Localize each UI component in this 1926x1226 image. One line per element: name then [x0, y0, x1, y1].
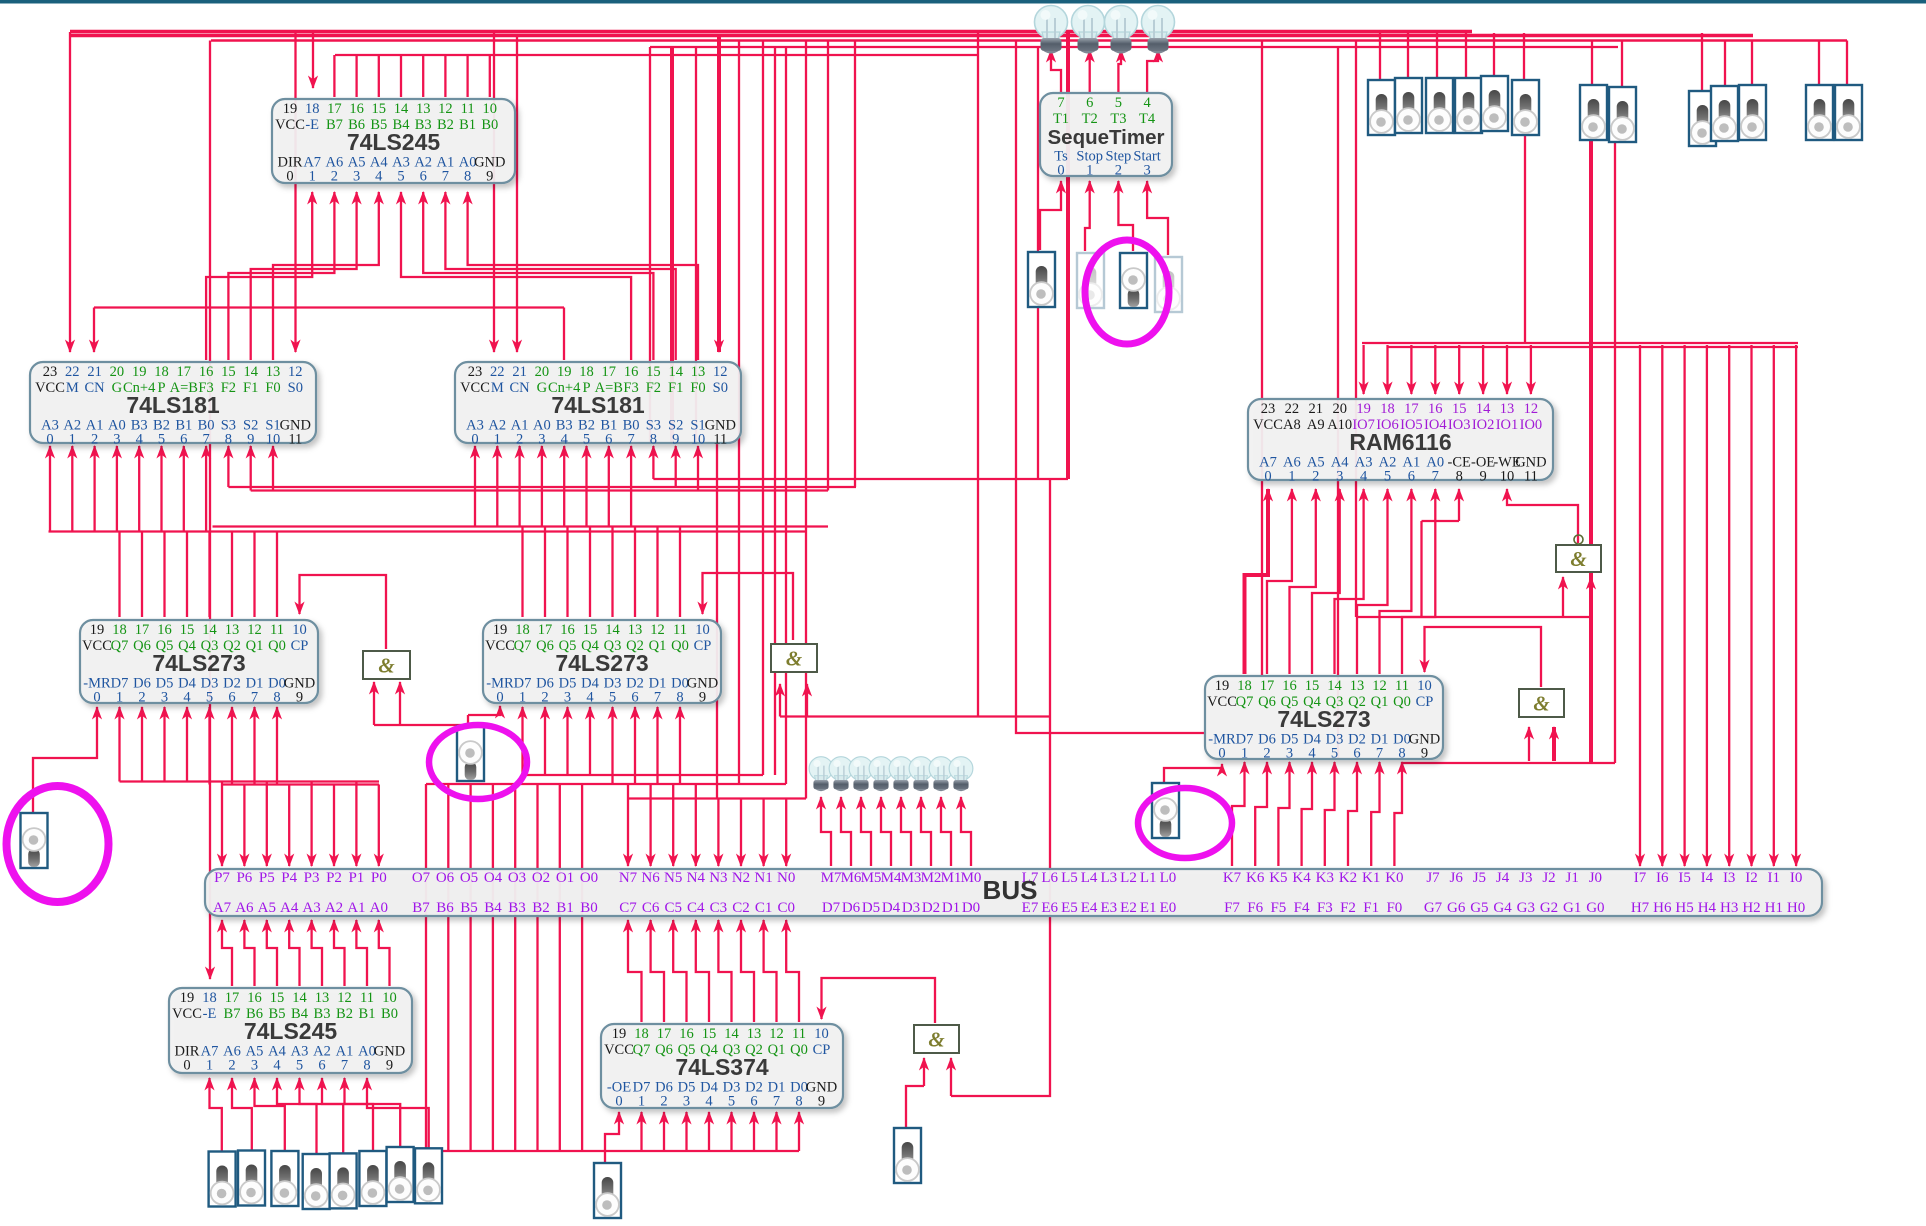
svg-text:10: 10	[292, 622, 307, 638]
svg-text:P5: P5	[259, 870, 275, 886]
svg-text:22: 22	[490, 364, 505, 380]
svg-text:B1: B1	[556, 900, 574, 916]
svg-text:6: 6	[318, 1058, 325, 1074]
svg-text:N3: N3	[709, 870, 727, 886]
svg-text:D1: D1	[942, 900, 960, 916]
svg-text:E5: E5	[1061, 900, 1078, 916]
svg-text:K1: K1	[1362, 870, 1380, 886]
svg-text:5: 5	[296, 1058, 303, 1074]
svg-text:6: 6	[1086, 95, 1093, 111]
svg-text:K7: K7	[1223, 870, 1242, 886]
svg-text:N4: N4	[687, 870, 706, 886]
svg-text:74LS181: 74LS181	[126, 392, 220, 418]
svg-text:12: 12	[1524, 401, 1539, 417]
svg-text:B7: B7	[326, 117, 343, 133]
svg-text:18: 18	[154, 364, 169, 380]
svg-text:7: 7	[251, 690, 258, 706]
svg-text:VCC: VCC	[172, 1006, 202, 1022]
svg-text:9: 9	[247, 432, 254, 448]
svg-text:22: 22	[1285, 401, 1300, 417]
svg-text:12: 12	[769, 1026, 784, 1042]
svg-text:7: 7	[1376, 746, 1383, 762]
svg-text:F1: F1	[243, 380, 258, 396]
svg-text:B0: B0	[580, 900, 598, 916]
svg-text:J6: J6	[1450, 870, 1464, 886]
svg-text:14: 14	[394, 101, 409, 117]
svg-text:B2: B2	[532, 900, 550, 916]
svg-text:M4: M4	[881, 870, 902, 886]
svg-text:1: 1	[1241, 746, 1248, 762]
svg-text:15: 15	[702, 1026, 717, 1042]
svg-text:12: 12	[247, 622, 262, 638]
svg-text:K4: K4	[1292, 870, 1311, 886]
svg-text:15: 15	[372, 101, 387, 117]
svg-text:74LS181: 74LS181	[551, 392, 645, 418]
svg-text:13: 13	[315, 990, 330, 1006]
svg-text:G2: G2	[1540, 900, 1558, 916]
svg-text:M5: M5	[861, 870, 882, 886]
svg-text:7: 7	[1057, 95, 1064, 111]
svg-text:3: 3	[538, 432, 545, 448]
svg-text:L4: L4	[1081, 870, 1098, 886]
svg-text:21: 21	[87, 364, 102, 380]
svg-text:Q6: Q6	[536, 638, 554, 654]
svg-text:15: 15	[270, 990, 285, 1006]
svg-text:7: 7	[341, 1058, 348, 1074]
svg-text:1: 1	[116, 690, 123, 706]
svg-text:0: 0	[93, 690, 100, 706]
svg-text:G0: G0	[1586, 900, 1604, 916]
svg-text:5: 5	[609, 690, 616, 706]
svg-text:3: 3	[353, 169, 360, 185]
svg-text:23: 23	[468, 364, 483, 380]
svg-text:N5: N5	[664, 870, 682, 886]
svg-text:18: 18	[1380, 401, 1395, 417]
svg-text:20: 20	[1332, 401, 1347, 417]
svg-text:E0: E0	[1160, 900, 1177, 916]
svg-text:VCC: VCC	[460, 380, 490, 396]
svg-text:5: 5	[206, 690, 213, 706]
svg-text:F3: F3	[1317, 900, 1333, 916]
svg-text:9: 9	[672, 432, 679, 448]
svg-text:17: 17	[1260, 678, 1275, 694]
svg-text:I0: I0	[1790, 870, 1803, 886]
svg-text:1: 1	[1086, 163, 1093, 179]
svg-text:0: 0	[1218, 746, 1225, 762]
svg-text:18: 18	[579, 364, 594, 380]
svg-text:10: 10	[1417, 678, 1432, 694]
svg-text:1: 1	[309, 169, 316, 185]
svg-text:8: 8	[225, 432, 232, 448]
svg-text:Q7: Q7	[111, 638, 129, 654]
svg-text:E4: E4	[1081, 900, 1098, 916]
svg-text:17: 17	[1404, 401, 1419, 417]
svg-text:11: 11	[360, 990, 374, 1006]
svg-text:19: 19	[493, 622, 508, 638]
svg-text:Q0: Q0	[671, 638, 689, 654]
svg-text:12: 12	[1372, 678, 1387, 694]
svg-text:7: 7	[442, 169, 449, 185]
svg-text:3: 3	[683, 1094, 690, 1110]
svg-text:6: 6	[605, 432, 612, 448]
svg-text:SequeTimer: SequeTimer	[1048, 126, 1165, 149]
svg-text:0: 0	[615, 1094, 622, 1110]
svg-text:2: 2	[91, 432, 98, 448]
svg-text:C3: C3	[710, 900, 728, 916]
svg-text:G1: G1	[1563, 900, 1581, 916]
svg-text:CP: CP	[291, 638, 309, 654]
svg-text:IO2: IO2	[1472, 417, 1495, 433]
svg-text:2: 2	[660, 1094, 667, 1110]
svg-text:6: 6	[631, 690, 638, 706]
svg-text:C5: C5	[664, 900, 682, 916]
svg-text:M: M	[66, 380, 79, 396]
svg-text:16: 16	[247, 990, 262, 1006]
svg-text:23: 23	[43, 364, 58, 380]
svg-text:Q6: Q6	[1258, 694, 1276, 710]
svg-text:-E: -E	[305, 117, 319, 133]
svg-text:H4: H4	[1698, 900, 1717, 916]
svg-text:E1: E1	[1140, 900, 1157, 916]
svg-text:VCC: VCC	[1253, 417, 1283, 433]
svg-text:13: 13	[225, 622, 240, 638]
svg-text:I6: I6	[1656, 870, 1669, 886]
svg-text:14: 14	[605, 622, 620, 638]
svg-text:15: 15	[583, 622, 598, 638]
svg-text:10: 10	[691, 432, 706, 448]
svg-text:M7: M7	[821, 870, 842, 886]
svg-text:6: 6	[180, 432, 187, 448]
svg-text:0: 0	[183, 1058, 190, 1074]
svg-text:F2: F2	[646, 380, 661, 396]
svg-text:2: 2	[1115, 163, 1122, 179]
svg-text:16: 16	[1428, 401, 1443, 417]
svg-text:F2: F2	[221, 380, 236, 396]
svg-text:L5: L5	[1061, 870, 1078, 886]
svg-text:J1: J1	[1566, 870, 1579, 886]
svg-text:11: 11	[673, 622, 687, 638]
svg-text:21: 21	[512, 364, 527, 380]
svg-text:L0: L0	[1160, 870, 1177, 886]
svg-text:17: 17	[327, 101, 342, 117]
svg-text:14: 14	[243, 364, 258, 380]
svg-text:17: 17	[538, 622, 553, 638]
svg-text:10: 10	[382, 990, 397, 1006]
svg-text:15: 15	[180, 622, 195, 638]
svg-text:9: 9	[699, 690, 706, 706]
svg-text:N6: N6	[641, 870, 660, 886]
svg-text:K0: K0	[1385, 870, 1403, 886]
svg-text:I2: I2	[1745, 870, 1758, 886]
svg-text:K6: K6	[1246, 870, 1265, 886]
svg-text:11: 11	[461, 101, 475, 117]
svg-text:G6: G6	[1447, 900, 1466, 916]
svg-text:VCC: VCC	[35, 380, 65, 396]
svg-text:BUS: BUS	[983, 875, 1038, 905]
svg-text:CN: CN	[85, 380, 106, 396]
svg-text:2: 2	[1312, 469, 1319, 485]
svg-text:-E: -E	[203, 1006, 217, 1022]
svg-text:N0: N0	[777, 870, 795, 886]
svg-text:Q7: Q7	[1236, 694, 1254, 710]
svg-text:4: 4	[136, 432, 144, 448]
svg-text:1: 1	[494, 432, 501, 448]
svg-text:J4: J4	[1496, 870, 1510, 886]
svg-text:Q1: Q1	[768, 1042, 786, 1058]
svg-text:19: 19	[180, 990, 195, 1006]
svg-text:5: 5	[728, 1094, 735, 1110]
svg-text:19: 19	[90, 622, 105, 638]
svg-text:H5: H5	[1675, 900, 1693, 916]
svg-text:CN: CN	[510, 380, 531, 396]
svg-text:C1: C1	[755, 900, 773, 916]
svg-text:1: 1	[206, 1058, 213, 1074]
svg-text:F0: F0	[1386, 900, 1402, 916]
svg-text:O6: O6	[436, 870, 455, 886]
svg-text:6: 6	[750, 1094, 757, 1110]
svg-text:M2: M2	[921, 870, 942, 886]
svg-text:D7: D7	[822, 900, 841, 916]
svg-text:J2: J2	[1542, 870, 1555, 886]
svg-text:1: 1	[69, 432, 76, 448]
svg-text:N7: N7	[619, 870, 638, 886]
svg-text:O2: O2	[532, 870, 550, 886]
svg-text:Q0: Q0	[268, 638, 286, 654]
svg-text:19: 19	[612, 1026, 627, 1042]
svg-text:&: &	[786, 647, 803, 671]
svg-text:4: 4	[1360, 469, 1368, 485]
svg-text:13: 13	[691, 364, 706, 380]
svg-text:15: 15	[646, 364, 661, 380]
svg-text:17: 17	[602, 364, 617, 380]
svg-text:8: 8	[464, 169, 471, 185]
svg-text:0: 0	[471, 432, 478, 448]
svg-text:L3: L3	[1100, 870, 1117, 886]
svg-text:M3: M3	[901, 870, 922, 886]
svg-text:2: 2	[1263, 746, 1270, 762]
svg-text:9: 9	[1479, 469, 1486, 485]
svg-text:74LS245: 74LS245	[244, 1018, 338, 1044]
svg-text:0: 0	[46, 432, 53, 448]
svg-text:10: 10	[1500, 469, 1515, 485]
svg-text:B5: B5	[460, 900, 478, 916]
svg-text:0: 0	[1264, 469, 1271, 485]
svg-text:14: 14	[202, 622, 217, 638]
svg-text:8: 8	[363, 1058, 370, 1074]
svg-text:15: 15	[1452, 401, 1467, 417]
svg-text:B7: B7	[224, 1006, 241, 1022]
svg-text:A8: A8	[1283, 417, 1301, 433]
svg-text:IO1: IO1	[1496, 417, 1519, 433]
svg-text:S0: S0	[713, 380, 728, 396]
svg-text:17: 17	[135, 622, 150, 638]
svg-text:H7: H7	[1631, 900, 1650, 916]
svg-text:5: 5	[397, 169, 404, 185]
svg-text:13: 13	[1500, 401, 1515, 417]
svg-text:11: 11	[1395, 678, 1409, 694]
svg-text:E3: E3	[1100, 900, 1117, 916]
svg-text:8: 8	[1456, 469, 1463, 485]
svg-text:D2: D2	[922, 900, 940, 916]
svg-text:VCC: VCC	[604, 1042, 634, 1058]
svg-text:9: 9	[486, 169, 493, 185]
svg-text:15: 15	[1305, 678, 1320, 694]
svg-text:P0: P0	[371, 870, 387, 886]
svg-text:8: 8	[795, 1094, 802, 1110]
svg-text:F4: F4	[1294, 900, 1310, 916]
svg-text:74LS273: 74LS273	[152, 650, 245, 676]
svg-text:G3: G3	[1517, 900, 1535, 916]
svg-text:11: 11	[1524, 469, 1538, 485]
svg-text:11: 11	[713, 432, 727, 448]
svg-text:2: 2	[516, 432, 523, 448]
svg-text:3: 3	[1286, 746, 1293, 762]
svg-text:7: 7	[654, 690, 661, 706]
svg-text:11: 11	[792, 1026, 806, 1042]
svg-text:S0: S0	[288, 380, 303, 396]
svg-text:CP: CP	[813, 1042, 831, 1058]
svg-text:F2: F2	[1340, 900, 1356, 916]
svg-text:13: 13	[266, 364, 281, 380]
svg-text:17: 17	[177, 364, 192, 380]
svg-text:12: 12	[713, 364, 728, 380]
svg-text:6: 6	[228, 690, 235, 706]
svg-text:L6: L6	[1041, 870, 1058, 886]
svg-text:B0: B0	[381, 1006, 398, 1022]
svg-text:12: 12	[288, 364, 303, 380]
svg-text:6: 6	[1408, 469, 1415, 485]
svg-text:F7: F7	[1224, 900, 1240, 916]
svg-text:G: G	[112, 380, 123, 396]
svg-text:P1: P1	[348, 870, 364, 886]
svg-text:Q0: Q0	[790, 1042, 808, 1058]
svg-text:9: 9	[386, 1058, 393, 1074]
svg-text:I7: I7	[1634, 870, 1647, 886]
svg-text:T1: T1	[1053, 111, 1069, 127]
svg-text:Q1: Q1	[246, 638, 264, 654]
svg-text:I4: I4	[1701, 870, 1714, 886]
svg-text:M0: M0	[961, 870, 982, 886]
svg-text:A1: A1	[347, 900, 365, 916]
svg-text:22: 22	[65, 364, 80, 380]
svg-text:L2: L2	[1120, 870, 1137, 886]
svg-text:8: 8	[650, 432, 657, 448]
svg-text:VCC: VCC	[1207, 694, 1237, 710]
svg-text:12: 12	[337, 990, 352, 1006]
svg-text:M1: M1	[941, 870, 962, 886]
svg-text:F6: F6	[1247, 900, 1263, 916]
svg-text:&: &	[378, 654, 395, 678]
svg-text:K5: K5	[1269, 870, 1287, 886]
svg-text:I3: I3	[1723, 870, 1736, 886]
svg-text:16: 16	[679, 1026, 694, 1042]
svg-text:4: 4	[561, 432, 569, 448]
svg-text:D0: D0	[962, 900, 980, 916]
svg-text:20: 20	[535, 364, 550, 380]
svg-text:5: 5	[1384, 469, 1391, 485]
svg-text:16: 16	[1282, 678, 1297, 694]
svg-text:7: 7	[1432, 469, 1439, 485]
svg-text:D3: D3	[902, 900, 920, 916]
svg-text:P6: P6	[236, 870, 252, 886]
svg-text:Q6: Q6	[133, 638, 151, 654]
svg-text:J3: J3	[1519, 870, 1532, 886]
svg-text:16: 16	[349, 101, 364, 117]
svg-text:N2: N2	[732, 870, 750, 886]
svg-text:C7: C7	[619, 900, 637, 916]
svg-text:O7: O7	[412, 870, 431, 886]
svg-text:F1: F1	[1363, 900, 1379, 916]
svg-text:P2: P2	[326, 870, 342, 886]
svg-text:A2: A2	[325, 900, 343, 916]
svg-text:18: 18	[112, 622, 127, 638]
svg-text:M6: M6	[841, 870, 862, 886]
svg-text:7: 7	[202, 432, 209, 448]
svg-text:A7: A7	[213, 900, 232, 916]
svg-text:18: 18	[634, 1026, 649, 1042]
svg-text:H3: H3	[1720, 900, 1738, 916]
svg-text:C4: C4	[687, 900, 705, 916]
svg-text:A3: A3	[302, 900, 320, 916]
svg-text:12: 12	[650, 622, 665, 638]
svg-text:4: 4	[273, 1058, 281, 1074]
svg-text:7: 7	[627, 432, 634, 448]
svg-text:VCC: VCC	[82, 638, 112, 654]
svg-text:T3: T3	[1110, 111, 1126, 127]
svg-text:8: 8	[273, 690, 280, 706]
svg-text:Q0: Q0	[1393, 694, 1411, 710]
svg-text:19: 19	[1356, 401, 1371, 417]
svg-text:Q7: Q7	[514, 638, 532, 654]
svg-text:C6: C6	[642, 900, 660, 916]
svg-text:9: 9	[1421, 746, 1428, 762]
svg-text:1: 1	[519, 690, 526, 706]
svg-text:5: 5	[1115, 95, 1122, 111]
svg-text:19: 19	[283, 101, 298, 117]
svg-text:C0: C0	[777, 900, 795, 916]
svg-text:T4: T4	[1139, 111, 1156, 127]
svg-text:18: 18	[202, 990, 217, 1006]
svg-text:O5: O5	[460, 870, 478, 886]
svg-text:O1: O1	[556, 870, 574, 886]
svg-text:0: 0	[496, 690, 503, 706]
svg-text:E6: E6	[1041, 900, 1058, 916]
svg-text:K3: K3	[1316, 870, 1334, 886]
svg-text:1: 1	[638, 1094, 645, 1110]
svg-text:A0: A0	[370, 900, 388, 916]
svg-text:&: &	[928, 1028, 945, 1052]
svg-text:4: 4	[1308, 746, 1316, 762]
svg-text:O3: O3	[508, 870, 526, 886]
svg-text:P3: P3	[304, 870, 320, 886]
svg-text:&: &	[1570, 547, 1587, 571]
svg-text:4: 4	[705, 1094, 713, 1110]
svg-text:I1: I1	[1768, 870, 1781, 886]
svg-text:17: 17	[657, 1026, 672, 1042]
svg-text:F5: F5	[1270, 900, 1286, 916]
svg-text:2: 2	[541, 690, 548, 706]
svg-text:16: 16	[157, 622, 172, 638]
svg-text:19: 19	[1215, 678, 1230, 694]
svg-text:F0: F0	[690, 380, 705, 396]
svg-text:19: 19	[132, 364, 147, 380]
svg-text:10: 10	[814, 1026, 829, 1042]
svg-text:16: 16	[624, 364, 639, 380]
svg-text:C2: C2	[732, 900, 750, 916]
svg-text:G7: G7	[1424, 900, 1443, 916]
svg-text:13: 13	[747, 1026, 762, 1042]
svg-text:14: 14	[292, 990, 307, 1006]
